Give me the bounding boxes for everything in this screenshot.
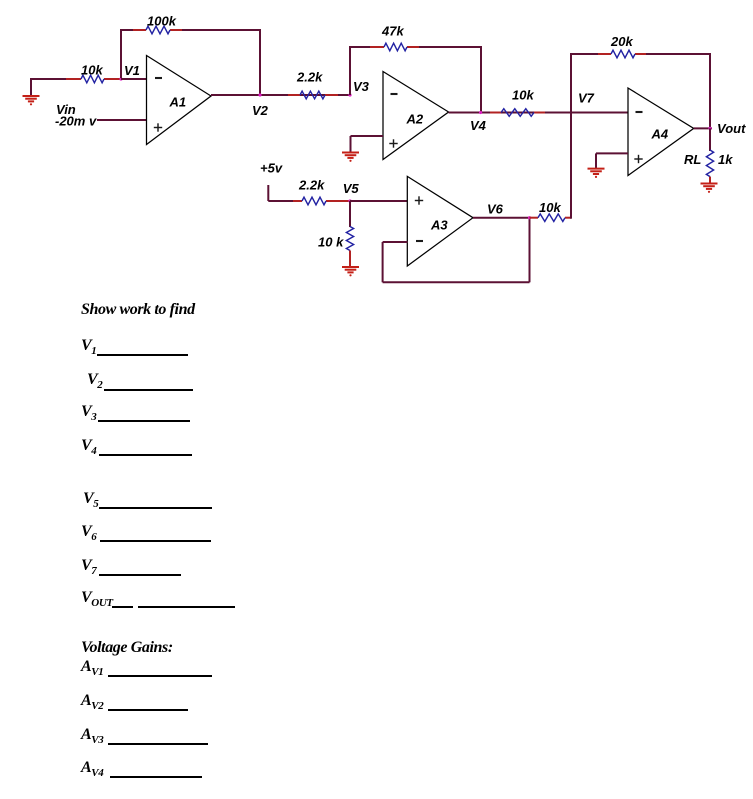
svg-text:+5v: +5v [260,161,283,176]
A1 plus sign [154,123,162,131]
resistor 2.2k (V2 to V3) [288,91,338,99]
wire: feedback down to V4 [480,46,482,113]
wire: feedback top right segment [182,29,260,31]
A1 minus sign [155,77,162,79]
label AV4 blank [81,760,103,776]
wire: V3 up to feedback 47k [349,47,351,95]
resistor 47k (feedback A2) [370,43,421,51]
svg-text:-20m v: -20m v [55,114,97,129]
wire: A1 output to V3 [211,94,351,96]
wire: 20k feedback top left [570,53,600,55]
label AV1 blank [81,659,103,675]
svg-text:V6: V6 [487,202,504,217]
resistor 100k (feedback A1) [133,26,184,34]
wire: feedback top left segment [120,29,135,31]
node Vout junction [708,127,711,130]
label VOUT blank [81,590,113,606]
svg-text:V2: V2 [252,103,269,118]
svg-text:A1: A1 [169,95,187,110]
A3 plus sign [415,196,423,204]
wire: 47k feedback top left [349,46,372,48]
label V5 blank [83,491,98,507]
svg-text:V5: V5 [343,181,360,196]
ground (A2 plus input) [342,153,359,162]
wire: V6 10k up to V7 node [570,112,572,219]
wire: feedback down to Vout [709,53,711,128]
node V5 junction [348,199,351,202]
resistor 10k (V5 to ground) [346,227,353,267]
op-amp A2 [383,72,449,160]
svg-text:A3: A3 [430,218,448,233]
label V3 blank [81,404,96,420]
resistor 10k (V6 to V7) [530,214,572,222]
A4 minus sign [636,111,643,113]
svg-text:V1: V1 [124,63,140,78]
label V4 blank [81,438,96,454]
op-amp A4 [628,88,694,176]
A2 plus sign [389,139,397,147]
svg-text:V4: V4 [470,118,487,133]
label V1 blank [81,338,96,354]
label V7 blank [81,558,96,574]
svg-text:2.2k: 2.2k [298,178,325,193]
resistor 20k (feedback A4) [598,50,648,58]
wire: V7 to A4 inverting input [571,112,628,114]
A3 minus sign [416,240,423,242]
A4 plus sign [634,155,642,163]
svg-text:10k: 10k [512,88,534,103]
wire: A4 non-inverting to ground [596,153,628,168]
svg-text:100k: 100k [147,14,177,29]
resistor 2.2k (+5v to V5) [293,197,350,205]
ground (below RL) [701,184,718,193]
wire: V7 up to feedback 20k [570,54,572,113]
ground (A4 plus input) [588,169,605,178]
label V6 blank [81,524,96,540]
wire: left ground to resistor 10k [30,78,70,80]
ground (below V5 10k) [342,267,359,276]
svg-text:10k: 10k [539,200,561,215]
wire: feedback down to output V2 [259,29,261,95]
svg-text:Vout: Vout [717,121,746,136]
svg-text:10 k: 10 k [318,235,344,250]
node V6 junction [528,216,531,219]
svg-text:RL: RL [684,152,701,167]
node V1 junction [119,77,122,80]
wire: A4 output to Vout [694,127,712,129]
resistor 10k (V4 to V7) [490,109,545,117]
label AV2 blank [81,693,103,709]
label AV3 blank [81,727,103,743]
label V2 blank [87,372,102,388]
svg-text:A4: A4 [651,127,669,142]
node V4 junction [479,111,482,114]
svg-text:2.2k: 2.2k [296,70,323,85]
resistor RL 1k (Vout to ground) [706,128,713,183]
svg-text:1k: 1k [718,152,733,167]
svg-text:V3: V3 [353,79,370,94]
ground (input of 10k, far left) [23,79,40,105]
node V3 junction [348,93,351,96]
heading Voltage Gains: [81,640,173,656]
wire: A2 output to V7 vertical [449,112,572,114]
wire: A2 non-inverting to ground [351,136,384,152]
wire: +5v source drop [267,185,269,201]
wire: 20k feedback top right [646,53,710,55]
wire: V1 to A1 inverting input [121,78,147,80]
svg-text:47k: 47k [381,24,404,39]
wire: 47k feedback top right [419,46,481,48]
wire: V1 up to feedback 100k [120,30,122,78]
op-amp A1 [147,56,212,145]
node V2 junction [258,93,261,96]
A2 minus sign [391,93,398,95]
svg-text:A2: A2 [406,112,424,127]
wire: +5v to 2.2k [268,200,296,202]
resistor 10k (input, A1) [66,75,121,83]
svg-text:20k: 20k [610,34,633,49]
op-amp A3 [407,176,473,266]
wire: A3 output to 10k [473,217,531,219]
wire: V5 down to 10k [349,201,351,227]
wire: V5 to A3 non-inverting input [350,200,408,202]
svg-text:10k: 10k [81,63,103,78]
svg-text:V7: V7 [578,91,595,106]
wire: A3 inverting input feedback loop [383,218,530,283]
wire: Vin to A1 non-inverting input [97,119,147,121]
heading Show work to find [81,302,195,318]
